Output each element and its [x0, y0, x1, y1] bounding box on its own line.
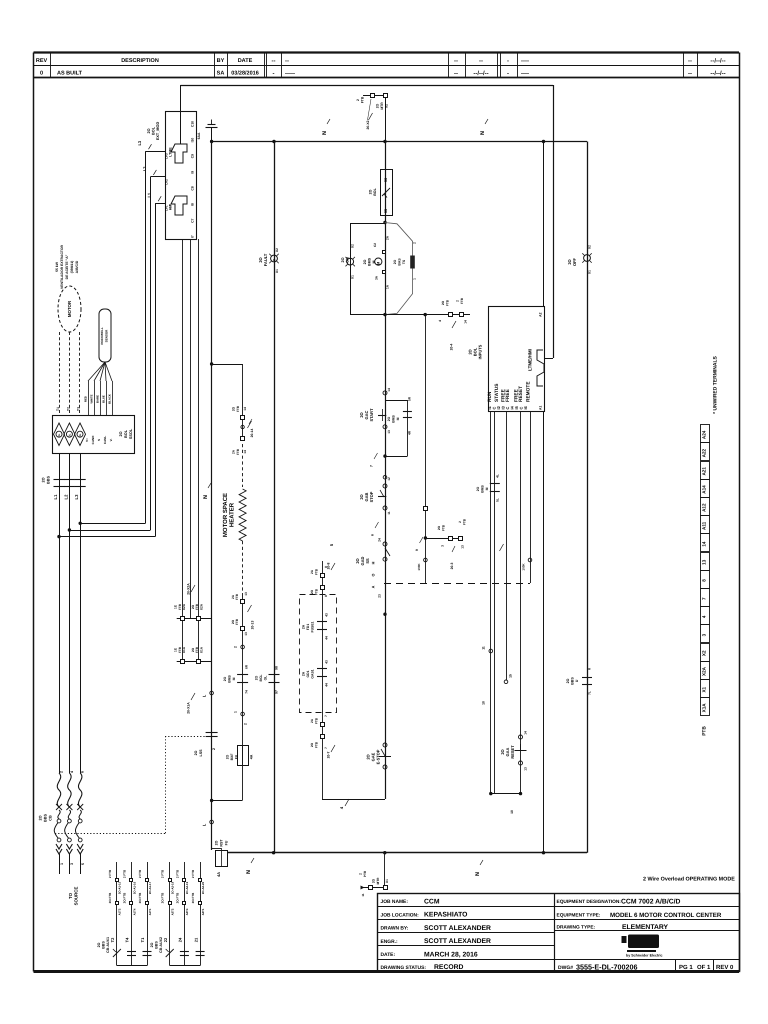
svg-text:2 FTB: 2 FTB [138, 869, 142, 878]
svg-text:CB-AUX1: CB-AUX1 [106, 937, 110, 953]
svg-text:1: 1 [60, 863, 64, 865]
svg-text:ON: ON [346, 257, 350, 263]
svg-text:X1: X1 [350, 275, 354, 279]
svg-text:FTB: FTB [460, 297, 464, 304]
svg-text:JOB LOCATION:: JOB LOCATION: [381, 912, 420, 918]
svg-text:M: M [232, 677, 236, 680]
svg-text:20-X1A: 20-X1A [187, 702, 191, 714]
svg-text:X1: X1 [385, 879, 389, 883]
svg-text:43: 43 [325, 613, 329, 617]
svg-text:23: 23 [378, 594, 382, 598]
svg-text:MTR: MTR [380, 102, 384, 110]
svg-text:2 Wire Overload OPERATING MODE: 2 Wire Overload OPERATING MODE [643, 877, 735, 883]
svg-text:SCOTT ALEXANDER: SCOTT ALEXANDER [424, 925, 491, 932]
svg-text:MOTOR SPACE: MOTOR SPACE [222, 493, 229, 537]
svg-text:3: 3 [702, 633, 707, 636]
svg-text:PTB: PTB [363, 870, 367, 877]
svg-text:4A: 4A [250, 754, 254, 759]
svg-text:DRAWN BY:: DRAWN BY: [381, 926, 409, 932]
svg-text:CCM: CCM [424, 899, 440, 906]
svg-text:N: N [480, 131, 486, 135]
svg-text:V-: V- [109, 439, 113, 442]
svg-text:A/B/C/D: A/B/C/D [75, 260, 79, 273]
svg-text:MTR: MTR [376, 877, 380, 885]
svg-text:4A: 4A [217, 872, 221, 877]
svg-text:20-13: 20-13 [251, 621, 255, 630]
svg-text:FAULT: FAULT [263, 253, 268, 266]
svg-text:2O: 2O [215, 840, 219, 845]
svg-text:55 kW: 55 kW [55, 261, 59, 272]
svg-text:--: -- [285, 59, 289, 65]
svg-text:4: 4 [70, 771, 74, 773]
svg-text:S: S [97, 439, 101, 441]
svg-text:SA: SA [217, 71, 225, 77]
svg-text:E-STOP: E-STOP [376, 749, 381, 764]
svg-text:BMS: BMS [392, 415, 396, 423]
svg-text:--: -- [454, 59, 458, 65]
svg-text:8: 8 [702, 579, 707, 582]
svg-text:2O FTB: 2O FTB [191, 892, 195, 904]
svg-text:13: 13 [244, 592, 248, 596]
svg-text:--: -- [479, 59, 483, 65]
svg-text:DATE: DATE [238, 58, 253, 64]
svg-text:A12: A12 [702, 503, 707, 512]
svg-text:PG 1: PG 1 [679, 964, 693, 971]
svg-text:2O FTB: 2O FTB [175, 892, 179, 904]
svg-text:M: M [485, 487, 489, 490]
svg-text:--/--/--: --/--/-- [710, 70, 725, 77]
svg-text:T4: T4 [125, 937, 130, 942]
svg-text:95: 95 [384, 209, 388, 213]
svg-text:BOL: BOL [124, 429, 128, 438]
svg-text:--: -- [272, 59, 276, 65]
svg-text:RESET: RESET [510, 745, 515, 759]
svg-text:X2: X2 [702, 650, 707, 656]
svg-text:--: -- [454, 71, 458, 77]
svg-text:LV3: LV3 [164, 153, 168, 159]
svg-text:BMS: BMS [228, 675, 232, 683]
svg-text:L3: L3 [74, 494, 79, 500]
svg-text:----: ---- [521, 59, 529, 65]
svg-text:X1A: X1A [182, 646, 186, 653]
svg-text:BMS: BMS [481, 485, 485, 493]
svg-text:MARCH 28, 2016: MARCH 28, 2016 [424, 951, 478, 958]
svg-text:L1: L1 [53, 494, 58, 500]
svg-text:SENSOR: SENSOR [105, 329, 109, 343]
svg-text:CCM 7002 A/B/C/D: CCM 7002 A/B/C/D [621, 899, 681, 906]
svg-text:CB-AUX2: CB-AUX2 [159, 937, 163, 953]
svg-text:43: 43 [325, 660, 329, 664]
svg-text:FTB: FTB [235, 593, 239, 600]
svg-text:4: 4 [438, 320, 442, 322]
svg-text:2: 2 [413, 242, 417, 244]
svg-text:DWG#: DWG# [558, 965, 573, 971]
svg-text:12: 12 [387, 477, 391, 481]
svg-text:74: 74 [245, 690, 249, 694]
svg-text:2A: 2A [386, 235, 390, 240]
svg-text:2O-A2-20: 2O-A2-20 [201, 881, 205, 894]
svg-text:4L: 4L [496, 474, 500, 478]
svg-text:2O: 2O [226, 754, 230, 759]
svg-text:1: 1 [413, 278, 417, 280]
svg-text:SOURCE: SOURCE [74, 887, 79, 906]
svg-text:BBS: BBS [571, 677, 575, 685]
svg-text:MODEL 6 MOTOR CONTROL CENTER: MODEL 6 MOTOR CONTROL CENTER [610, 912, 722, 919]
svg-text:98: 98 [275, 666, 279, 670]
svg-text:STATUS: STATUS [494, 383, 500, 402]
svg-text:2: 2 [212, 748, 216, 750]
svg-text:A2T2: A2T2 [171, 908, 175, 915]
svg-text:LSS: LSS [199, 749, 203, 757]
svg-text:2O: 2O [150, 942, 154, 947]
svg-text:L2: L2 [63, 494, 68, 500]
svg-text:14: 14 [464, 320, 468, 324]
svg-text:6: 6 [371, 534, 375, 536]
svg-text:A1T4: A1T4 [132, 908, 136, 915]
svg-text:20-4: 20-4 [450, 343, 454, 350]
svg-text:1: 1 [234, 711, 238, 713]
svg-text:L2: L2 [142, 166, 147, 171]
svg-text:GD1: GD1 [306, 670, 310, 677]
svg-text:C10: C10 [191, 121, 195, 127]
svg-text:14: 14 [524, 731, 528, 735]
svg-text:2O: 2O [42, 477, 46, 482]
svg-text:-----: ----- [285, 71, 295, 77]
svg-text:1A: 1A [386, 284, 390, 289]
svg-text:ENGR.:: ENGR.: [381, 939, 398, 945]
svg-text:14: 14 [243, 407, 247, 411]
svg-text:5L: 5L [496, 498, 500, 502]
svg-text:7: 7 [370, 465, 374, 467]
svg-text:BLUE: BLUE [102, 395, 106, 403]
svg-text:FREE: FREE [505, 388, 511, 402]
svg-text:2: 2 [356, 99, 360, 101]
svg-text:FTB: FTB [235, 618, 239, 625]
svg-text:7: 7 [324, 747, 328, 749]
svg-text:M: M [372, 261, 376, 264]
svg-text:N: N [322, 131, 328, 135]
svg-text:2O: 2O [119, 431, 123, 436]
svg-text:2O: 2O [393, 259, 397, 264]
svg-text:14: 14 [243, 450, 247, 454]
svg-text:C8: C8 [191, 186, 195, 190]
svg-text:2O: 2O [369, 189, 373, 194]
svg-text:2 FTB: 2 FTB [161, 869, 165, 878]
svg-text:X1: X1 [275, 269, 279, 273]
svg-text:SSOL: SSOL [129, 428, 133, 439]
svg-text:BBS: BBS [102, 941, 106, 949]
svg-text:T3: T3 [77, 407, 81, 411]
svg-text:2A: 2A [302, 671, 306, 676]
svg-text:A2T4: A2T4 [185, 908, 189, 915]
svg-text:TS: TS [402, 259, 406, 264]
svg-text:O: O [372, 573, 376, 576]
svg-text:3: 3 [441, 545, 445, 547]
svg-text:2O FTB: 2O FTB [138, 892, 142, 904]
svg-text:EQUIPMENT DESIGNATION:: EQUIPMENT DESIGNATION: [557, 899, 622, 905]
svg-text:A2T1: A2T1 [201, 908, 205, 915]
svg-text:OF 1: OF 1 [697, 964, 711, 971]
svg-text:A22: A22 [702, 448, 707, 457]
svg-text:13: 13 [387, 430, 391, 434]
svg-text:C9: C9 [191, 154, 195, 158]
svg-text:SS: SS [365, 558, 370, 564]
svg-text:22: 22 [163, 937, 168, 942]
svg-text:A2: A2 [539, 312, 543, 316]
svg-text:2 FTB: 2 FTB [191, 869, 195, 878]
svg-text:DRAWING TYPE:: DRAWING TYPE: [557, 925, 596, 931]
svg-text:2O: 2O [223, 676, 227, 681]
svg-text:11: 11 [361, 893, 365, 897]
svg-text:2O: 2O [363, 259, 367, 264]
svg-text:15: 15 [509, 674, 513, 678]
svg-text:HEATER: HEATER [228, 502, 235, 527]
svg-text:VENTILADOR EXTRACTOR: VENTILADOR EXTRACTOR [60, 244, 64, 289]
svg-text:2A: 2A [302, 624, 306, 629]
svg-text:BXF: BXF [230, 754, 234, 761]
svg-text:4R: 4R [408, 430, 412, 435]
svg-text:HMI: HMI [169, 204, 173, 211]
svg-text:6: 6 [81, 771, 85, 773]
svg-text:I7: I7 [191, 235, 195, 238]
svg-text:2O: 2O [194, 750, 198, 755]
svg-text:97: 97 [275, 690, 279, 694]
svg-text:2O: 2O [476, 486, 480, 491]
svg-text:13: 13 [244, 632, 248, 636]
svg-text:DATE:: DATE: [381, 952, 396, 958]
svg-text:C2: C2 [373, 243, 377, 247]
svg-text:X2A: X2A [702, 666, 707, 676]
svg-text:OFF: OFF [572, 257, 577, 266]
svg-text:LTME: LTME [169, 147, 173, 157]
svg-text:20-X2: 20-X2 [366, 120, 370, 129]
svg-text:T1: T1 [56, 407, 60, 411]
svg-text:CB: CB [49, 815, 53, 821]
svg-text:H: H [372, 561, 376, 564]
svg-text:13: 13 [702, 559, 707, 565]
svg-text:(39M11): (39M11) [70, 261, 74, 273]
svg-text:KEPASHIATO: KEPASHIATO [424, 912, 467, 919]
svg-text:7: 7 [702, 597, 707, 600]
svg-text:X2A: X2A [199, 603, 203, 610]
svg-text:AS BUILT: AS BUILT [57, 71, 83, 77]
svg-text:BOL: BOL [373, 187, 377, 195]
svg-text:WHITE: WHITE [90, 394, 94, 403]
svg-text:14: 14 [387, 388, 391, 392]
svg-text:X2: X2 [275, 248, 279, 252]
svg-text:--/--/--: --/--/-- [473, 70, 488, 77]
svg-text:BY: BY [217, 58, 225, 64]
svg-text:11: 11 [387, 511, 391, 515]
svg-text:DRAWING STATUS:: DRAWING STATUS: [381, 965, 427, 971]
svg-text:REMOTE: REMOTE [526, 381, 532, 402]
svg-text:FTB: FTB [463, 518, 467, 525]
svg-text:FTB: FTB [236, 448, 240, 455]
svg-text:I10: I10 [191, 138, 195, 143]
svg-text:100K: 100K [417, 563, 421, 571]
svg-text:REV: REV [36, 58, 48, 64]
svg-text:20-3: 20-3 [450, 562, 454, 569]
svg-text:BCL: BCL [259, 675, 263, 682]
svg-text:44: 44 [325, 683, 329, 687]
svg-text:A1T2: A1T2 [118, 908, 122, 915]
svg-text:100K: 100K [521, 563, 525, 571]
svg-text:CANL: CANL [103, 436, 107, 444]
svg-text:ROCKWELL: ROCKWELL [100, 327, 104, 344]
svg-text:OL: OL [58, 433, 61, 437]
svg-text:RECORD: RECORD [434, 964, 464, 971]
svg-text:5: 5 [81, 863, 85, 865]
svg-text:X2: X2 [350, 244, 354, 248]
svg-text:L3: L3 [137, 140, 142, 145]
svg-text:96: 96 [384, 178, 388, 182]
svg-text:2O-A1-16: 2O-A1-16 [132, 881, 136, 894]
svg-text:2 FTB: 2 FTB [108, 869, 112, 878]
svg-text:2O: 2O [97, 942, 101, 947]
svg-text:2O: 2O [147, 128, 151, 133]
svg-text:RST: RST [220, 839, 224, 847]
svg-text:3A: 3A [375, 275, 379, 280]
svg-text:BMS: BMS [368, 257, 372, 266]
svg-text:10: 10 [510, 810, 514, 814]
svg-text:X2: X2 [385, 104, 389, 108]
svg-text:REV 0: REV 0 [716, 964, 734, 971]
svg-text:7L: 7L [588, 691, 592, 695]
svg-text:T2: T2 [110, 937, 115, 942]
svg-text:--: -- [688, 59, 692, 65]
svg-text:TO: TO [68, 892, 73, 899]
svg-text:2O FTB: 2O FTB [123, 892, 127, 904]
svg-text:EXT_MOD: EXT_MOD [156, 122, 160, 141]
svg-text:4: 4 [702, 615, 707, 618]
svg-text:FU: FU [225, 840, 229, 845]
svg-text:2: 2 [359, 873, 363, 875]
svg-text:FD1: FD1 [306, 624, 310, 631]
svg-text:I9: I9 [191, 171, 195, 174]
svg-text:2O-A1-15: 2O-A1-15 [118, 881, 122, 894]
svg-text:2O-A2-19: 2O-A2-19 [185, 881, 189, 894]
svg-text:LV2: LV2 [164, 179, 168, 185]
svg-text:A: A [372, 585, 376, 588]
svg-text:C7: C7 [191, 218, 195, 222]
svg-text:BBS: BBS [44, 814, 48, 822]
svg-text:DESCRIPTION: DESCRIPTION [121, 58, 159, 64]
svg-text:BARE: BARE [96, 395, 100, 403]
svg-text:A24: A24 [702, 430, 707, 439]
svg-text:LTME/HMI: LTME/HMI [528, 349, 533, 371]
svg-text:X1A: X1A [702, 703, 707, 713]
svg-text:A14: A14 [702, 485, 707, 494]
svg-text:FTB: FTB [236, 405, 240, 412]
svg-text:2O: 2O [255, 675, 259, 680]
svg-text:20-14: 20-14 [250, 429, 254, 438]
svg-text:2O-A2-18: 2O-A2-18 [171, 881, 175, 894]
svg-text:BAS: BAS [398, 258, 402, 266]
svg-text:INPUTS: INPUTS [478, 344, 483, 359]
svg-text:PTB: PTB [702, 726, 708, 736]
svg-text:DE ACEITE “A”: DE ACEITE “A” [65, 254, 69, 279]
svg-text:EQUIPMENT TYPE:: EQUIPMENT TYPE: [557, 912, 601, 918]
svg-text:2: 2 [458, 521, 462, 523]
svg-text:T1: T1 [140, 937, 145, 942]
svg-text:--: -- [688, 71, 692, 77]
svg-text:X1A: X1A [199, 646, 203, 653]
svg-text:A11: A11 [702, 521, 707, 530]
svg-text:2O: 2O [39, 815, 43, 820]
svg-text:X1: X1 [702, 686, 707, 692]
svg-text:STOP: STOP [369, 491, 374, 502]
svg-text:FU: FU [235, 754, 239, 759]
svg-text:13: 13 [524, 767, 528, 771]
svg-text:6AA: 6AA [197, 132, 201, 139]
svg-text:SCOTT ALEXANDER: SCOTT ALEXANDER [424, 938, 491, 945]
svg-text:RESET: RESET [518, 386, 524, 402]
svg-text:by Schneider Electric: by Schneider Electric [626, 954, 663, 958]
svg-text:2O: 2O [437, 525, 441, 530]
svg-text:3: 3 [70, 863, 74, 865]
svg-text:MOTOR: MOTOR [67, 300, 72, 317]
svg-text:7: 7 [324, 715, 328, 717]
svg-text:* UNWIRED TERMINALS: * UNWIRED TERMINALS [713, 355, 719, 413]
svg-text:20-X2A: 20-X2A [187, 583, 191, 595]
svg-text:FTB: FTB [314, 741, 318, 748]
svg-text:BLACK: BLACK [108, 394, 112, 404]
svg-text:A1: A1 [539, 406, 543, 410]
svg-text:LV1: LV1 [164, 205, 168, 211]
svg-text:2: 2 [60, 771, 64, 773]
svg-text:FTB: FTB [361, 96, 365, 103]
svg-text:2O-A1-17: 2O-A1-17 [148, 881, 152, 894]
svg-text:11: 11 [482, 646, 486, 650]
svg-text:RUN: RUN [487, 391, 493, 402]
svg-text:2O: 2O [341, 257, 345, 262]
svg-text:3555-E-DL-700206: 3555-E-DL-700206 [576, 962, 638, 971]
svg-text:0: 0 [40, 71, 43, 77]
svg-text:BBS: BBS [47, 476, 51, 484]
svg-text:N: N [475, 872, 481, 876]
svg-text:13: 13 [461, 545, 465, 549]
svg-text:V+: V+ [85, 438, 89, 442]
svg-text:CANH: CANH [91, 436, 95, 445]
svg-text:21: 21 [193, 937, 198, 942]
svg-text:2O FTB: 2O FTB [108, 892, 112, 904]
svg-text:44: 44 [325, 636, 329, 640]
svg-text:24: 24 [178, 937, 183, 942]
svg-text:-: - [507, 71, 509, 77]
svg-text:OL: OL [79, 433, 82, 437]
svg-text:M: M [396, 417, 400, 420]
svg-text:20-8: 20-8 [327, 562, 331, 569]
svg-text:2 FTB: 2 FTB [175, 869, 179, 878]
svg-text:START: START [369, 408, 374, 422]
svg-text:X2: X2 [588, 245, 592, 249]
svg-text:8: 8 [324, 595, 328, 597]
svg-text:JOB NAME:: JOB NAME: [381, 899, 409, 905]
svg-text:GAS1: GAS1 [311, 669, 315, 678]
svg-text:2O: 2O [372, 878, 376, 883]
svg-text:20-7: 20-7 [327, 751, 331, 758]
svg-text:X1: X1 [588, 270, 592, 274]
svg-text:T2: T2 [66, 407, 70, 411]
svg-text:24: 24 [378, 538, 382, 542]
svg-text:X2A: X2A [182, 603, 186, 610]
svg-text:FTB: FTB [314, 568, 318, 575]
svg-text:I8: I8 [191, 203, 195, 206]
svg-text:--/--/--: --/--/-- [710, 58, 725, 65]
svg-text:2: 2 [244, 723, 248, 725]
svg-text:-: - [507, 59, 509, 65]
svg-text:BOL: BOL [152, 126, 156, 135]
